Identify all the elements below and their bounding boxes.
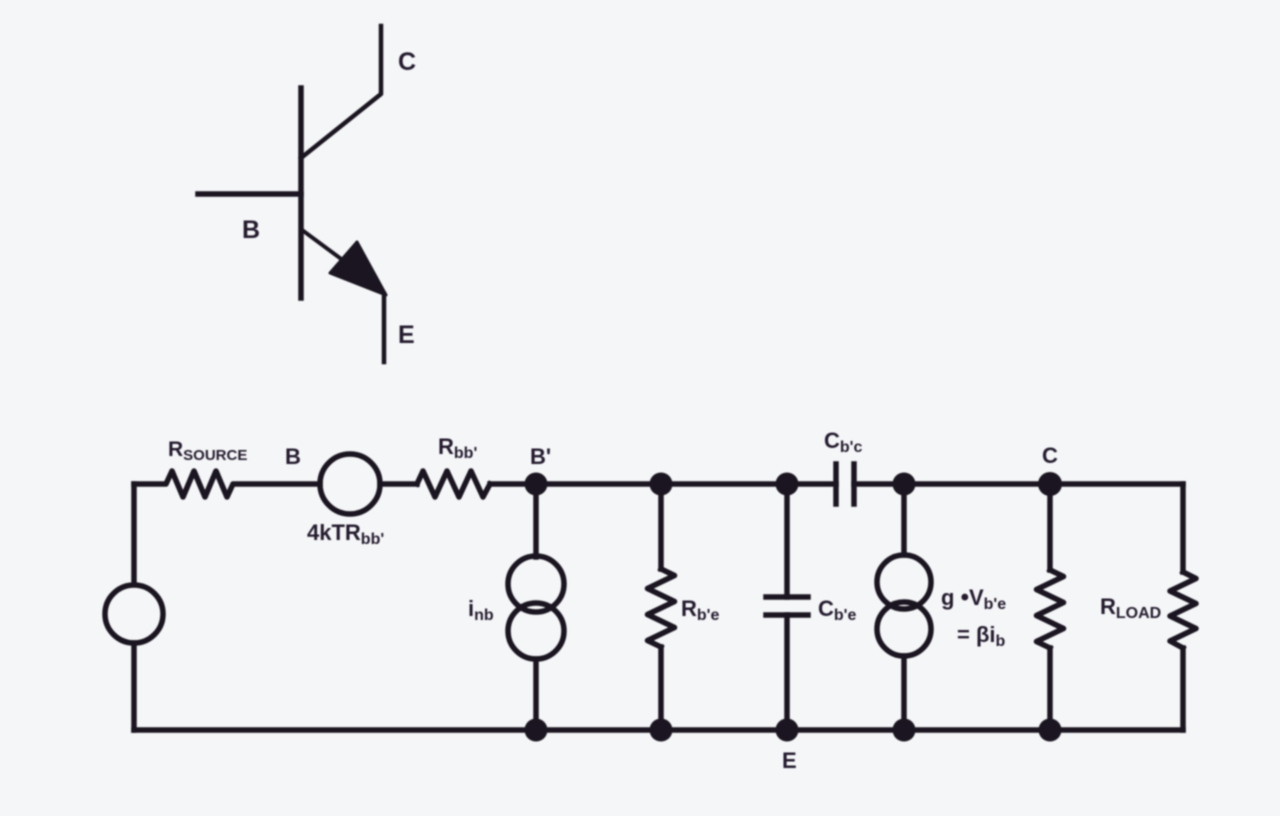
svg-text:4kTRbb': 4kTRbb' [307,520,384,548]
transistor Q1 emitter lead [302,230,348,264]
noise current source i_nb [508,556,564,659]
wire left vertical from top rail down to source VS [131,484,137,584]
wire i_nb down to bottom rail [533,659,539,730]
wire node B' down to i_nb [533,484,539,557]
svg-text:C: C [1042,443,1058,468]
wire R_b'e down to bottom rail [658,647,664,730]
svg-text:B: B [242,216,260,244]
svg-text:RLOAD: RLOAD [1100,594,1161,622]
svg-text:g •Vb'e: g •Vb'e [941,584,1006,613]
svg-text:RSOURCE: RSOURCE [168,438,247,464]
junction dot bottom of GM source [893,719,916,742]
transistor Q1 collector lead [301,26,381,158]
transistor Q1 base bar [298,88,304,298]
junction dot bottom of C_b'e (node E) [776,719,799,742]
svg-text:B': B' [530,444,551,469]
capacitor C_b'c left plate [833,464,839,504]
wire ET to R_bb' [380,481,417,487]
transistor Q1 emitter lead vertical [382,294,387,362]
svg-text:E: E [782,748,797,773]
svg-text:inb: inb [468,596,494,624]
node C junction dot [1038,472,1062,496]
capacitor C_b'e top plate [766,594,808,600]
wire GM down to bottom rail [901,656,907,730]
noise source ET (4kTRbb') [320,454,380,514]
capacitor C_b'e bottom plate [766,612,808,618]
svg-text:Rbb': Rbb' [438,434,477,462]
resistor R_bb' [417,471,490,497]
svg-text:C: C [398,48,416,76]
capacitor C_b'c right plate [851,464,857,504]
wire B' rail down to C_b'e [784,484,790,597]
wire right vertical bottom (R_LOAD to bottom rail) [1180,648,1186,730]
wire right vertical top (node C rail to R_LOAD) [1180,484,1186,572]
wire C_b'c to node C and top-right corner [854,481,1183,487]
transistor Q1 emitter arrowhead [330,242,386,295]
wire r_ce down to bottom rail [1047,648,1053,730]
wire R_bb' to node B' rail up to C_b'c left plate [490,481,836,487]
transistor Q1 base lead [198,191,301,197]
wire node C down to r_ce [1047,484,1053,570]
junction dot top of GM source [893,473,916,496]
wire C_b'e down to bottom rail [784,615,790,730]
junction dot bottom of r_ce [1039,719,1062,742]
junction dot bottom of i_nb [525,719,548,742]
wire C rail down to controlled source GM [901,484,907,555]
svg-text:Cb'c: Cb'c [824,428,862,456]
svg-text:E: E [398,321,415,349]
wire bottom rail E [134,727,1183,733]
svg-text:Cb'e: Cb'e [818,596,856,624]
svg-text:Rb'e: Rb'e [681,596,719,624]
wire from source VS down to bottom rail [131,643,137,730]
controlled current source GM (g·Vb'e = β·ib) [877,555,931,656]
svg-text:= βib: = βib [957,622,1006,650]
resistor r_ce [1037,570,1064,648]
resistor R_LOAD [1170,572,1196,648]
junction dot top of C_b'e [776,473,799,496]
svg-text:B: B [285,444,301,469]
junction dot top of R_b'e [650,473,673,496]
resistor R_SOURCE [134,471,320,497]
junction dot bottom of R_b'e [650,719,673,742]
node B' junction dot (top) [525,473,548,496]
wire B' rail down to R_b'e [658,484,664,569]
source VS [105,585,163,643]
resistor R_b'e [648,569,675,647]
